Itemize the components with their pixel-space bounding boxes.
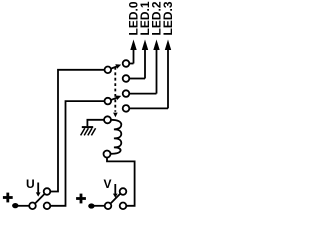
relay contact 1 throw T1: [123, 60, 130, 67]
relay contact 1 common circle: [105, 67, 112, 74]
wire throw3 to arrow LED.2: [129, 93, 156, 95]
output arrow LED.0: [130, 40, 136, 64]
ground symbol: [81, 127, 96, 135]
wire throw2 to arrow LED.1: [129, 78, 145, 80]
pushbutton V press arrow: [113, 184, 118, 198]
wire throw1 to arrow LED.0: [129, 63, 133, 65]
svg-text:LED.3: LED.3: [161, 1, 175, 35]
output arrow LED.3: [165, 40, 171, 109]
pushbutton U press arrow: [36, 183, 41, 197]
mechanical linkage dashed line: [114, 67, 116, 112]
pushbutton U common contact: [29, 203, 36, 210]
relay contact 1 blade arrow: [111, 64, 121, 69]
wire coil bottom to pushbutton V NO contact: [107, 158, 135, 206]
svg-text:V: V: [104, 177, 112, 191]
relay contact 2 throw T4: [123, 105, 130, 112]
pushbutton V blade: [110, 194, 120, 204]
wire throw4 to arrow LED.3: [129, 107, 168, 109]
supply dot terminal V: [88, 203, 94, 208]
relay coil winding: [111, 120, 122, 154]
wire U tip contact to relay contact 1 common: [50, 70, 104, 192]
relay contact 2 throw T3: [123, 90, 130, 97]
wire dot to U common: [18, 205, 30, 207]
wire U NO contact to relay contact 2 common: [50, 101, 104, 206]
pushbutton V common contact: [105, 203, 112, 210]
relay coil top terminal: [104, 116, 111, 123]
linkage actuator arrow onto coil: [113, 113, 118, 118]
wire dot to V common: [94, 205, 105, 207]
output arrow LED.1: [142, 40, 148, 79]
plus terminal V: [76, 194, 86, 204]
relay contact 2 blade arrow: [111, 96, 121, 101]
supply dot terminal U: [12, 203, 18, 208]
output arrow LED.2: [153, 40, 159, 94]
relay contact 2 common circle: [105, 98, 112, 105]
pushbutton U tip contact: [44, 188, 51, 195]
pushbutton U NO contact: [44, 203, 51, 210]
wire coil top to ground: [87, 120, 104, 127]
plus terminal U: [3, 193, 13, 203]
pushbutton V NO contact: [120, 203, 127, 210]
pushbutton V tip contact: [120, 188, 127, 195]
relay coil bottom terminal: [104, 151, 111, 158]
pushbutton U blade: [35, 194, 45, 204]
relay contact 1 throw T2: [123, 75, 130, 82]
svg-text:U: U: [26, 177, 35, 191]
